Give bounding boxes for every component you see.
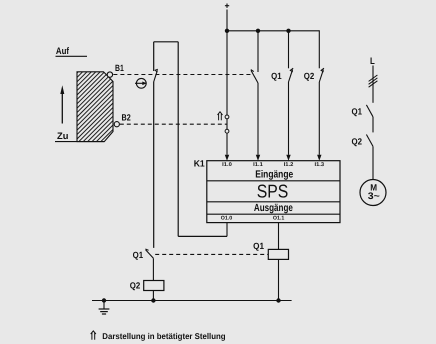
contact Q1 (main): [352, 105, 374, 117]
wire: Q1 contact to Q2 coil: [152, 258, 154, 280]
junction dot: [225, 29, 229, 33]
wire: between main contacts: [372, 117, 374, 133]
note arrow: [91, 331, 96, 340]
svg-text:Eingänge: Eingänge: [255, 170, 293, 181]
sensor B1: [107, 63, 124, 77]
svg-text:Zu: Zu: [57, 130, 69, 141]
junction dot: [256, 29, 260, 33]
svg-text:3~: 3~: [368, 191, 380, 202]
svg-text:I1.0: I1.0: [222, 162, 232, 168]
wire: I1.2 drop lower: [288, 82, 290, 155]
junction dot: [276, 298, 280, 302]
contact Q1 (bottom): [133, 249, 154, 260]
wire: I1.1 drop lower: [257, 83, 259, 155]
contact B1 at I1.1: [251, 70, 258, 83]
arrow into I1.3: [317, 155, 321, 161]
dashed actuation link B2: [120, 123, 227, 125]
dashed actuation link B1: [113, 74, 251, 76]
svg-text:B1: B1: [115, 63, 124, 73]
wire: loop right: [177, 42, 179, 237]
Zu baseline: [55, 141, 104, 143]
supply +: [225, 4, 229, 8]
wire: feedback loop top: [154, 41, 179, 43]
Auf underline: [56, 55, 88, 57]
wire: loop left upper: [153, 42, 155, 71]
motor M1: [360, 180, 386, 206]
svg-text:Q2: Q2: [130, 281, 141, 291]
contact Q1 aux: [271, 68, 293, 82]
wire: I1.1 drop upper: [257, 31, 259, 72]
three-phase marks: [369, 75, 378, 87]
svg-text:I1.1: I1.1: [253, 162, 263, 168]
svg-text:Ausgänge: Ausgänge: [254, 203, 293, 214]
coil Q1: [253, 241, 288, 260]
wire: O1.0 drop: [226, 223, 228, 237]
svg-text:Q1: Q1: [253, 241, 264, 251]
PLC SPS box: [207, 161, 340, 223]
wire: O1.1 drop: [278, 223, 280, 250]
svg-text:O1.1: O1.1: [273, 215, 284, 221]
svg-text:K1: K1: [194, 158, 205, 168]
svg-text:Q2: Q2: [304, 71, 315, 81]
arrow into I1.2: [286, 155, 290, 161]
wire: loop bottom to O1.0: [178, 235, 227, 237]
junction dot: [151, 298, 155, 302]
svg-text:Darstellung in betätigter Stel: Darstellung in betätigter Stellung: [102, 331, 225, 341]
contact Q2 (main): [352, 135, 374, 147]
svg-text:O1.0: O1.0: [221, 215, 232, 221]
arrow into I1.1: [256, 155, 260, 161]
svg-text:Q1: Q1: [352, 106, 363, 116]
svg-text:Q2: Q2: [352, 137, 363, 147]
wire: supply drop: [226, 10, 228, 31]
actuated-position arrow: [218, 112, 223, 121]
arrow into I1.0: [225, 155, 229, 161]
wire: loop left lower: [153, 82, 155, 248]
svg-text:I1.2: I1.2: [284, 162, 294, 168]
wire: I1.3 drop lower: [318, 82, 320, 155]
wire: to motor: [372, 146, 374, 179]
wire: top bus: [227, 30, 319, 32]
coil Q2: [130, 281, 164, 291]
door (hatched): [5, 68, 183, 145]
svg-text:Q1: Q1: [133, 250, 144, 260]
wire: I1.0 drop: [226, 31, 228, 155]
svg-text:I1.3: I1.3: [315, 162, 325, 168]
wire: mains drop: [372, 66, 374, 103]
junction dot: [286, 29, 290, 33]
ground: [99, 301, 110, 315]
actuation direction symbol: [135, 78, 147, 88]
contact B1 (in Q2 branch): [154, 69, 158, 81]
junction dot: [102, 298, 106, 302]
wire: Q1 coil to bus: [278, 259, 280, 300]
wire: Q2 coil to bus: [152, 291, 154, 301]
sensor B2: [114, 112, 130, 126]
door travel arrow: [60, 85, 64, 123]
svg-text:SPS: SPS: [257, 181, 289, 202]
svg-text:B2: B2: [122, 112, 131, 122]
svg-text:Auf: Auf: [56, 46, 70, 57]
switch stud upper: [225, 115, 229, 119]
wire: I1.3 drop upper: [318, 30, 320, 68]
contact Q2 aux: [304, 68, 324, 82]
wire: I1.2 drop upper: [288, 31, 290, 69]
dashed actuation link Q1: [155, 253, 268, 255]
switch stud lower: [225, 129, 229, 133]
svg-text:Q1: Q1: [271, 71, 282, 81]
wire: bottom bus: [92, 300, 292, 302]
svg-text:L: L: [370, 56, 375, 67]
